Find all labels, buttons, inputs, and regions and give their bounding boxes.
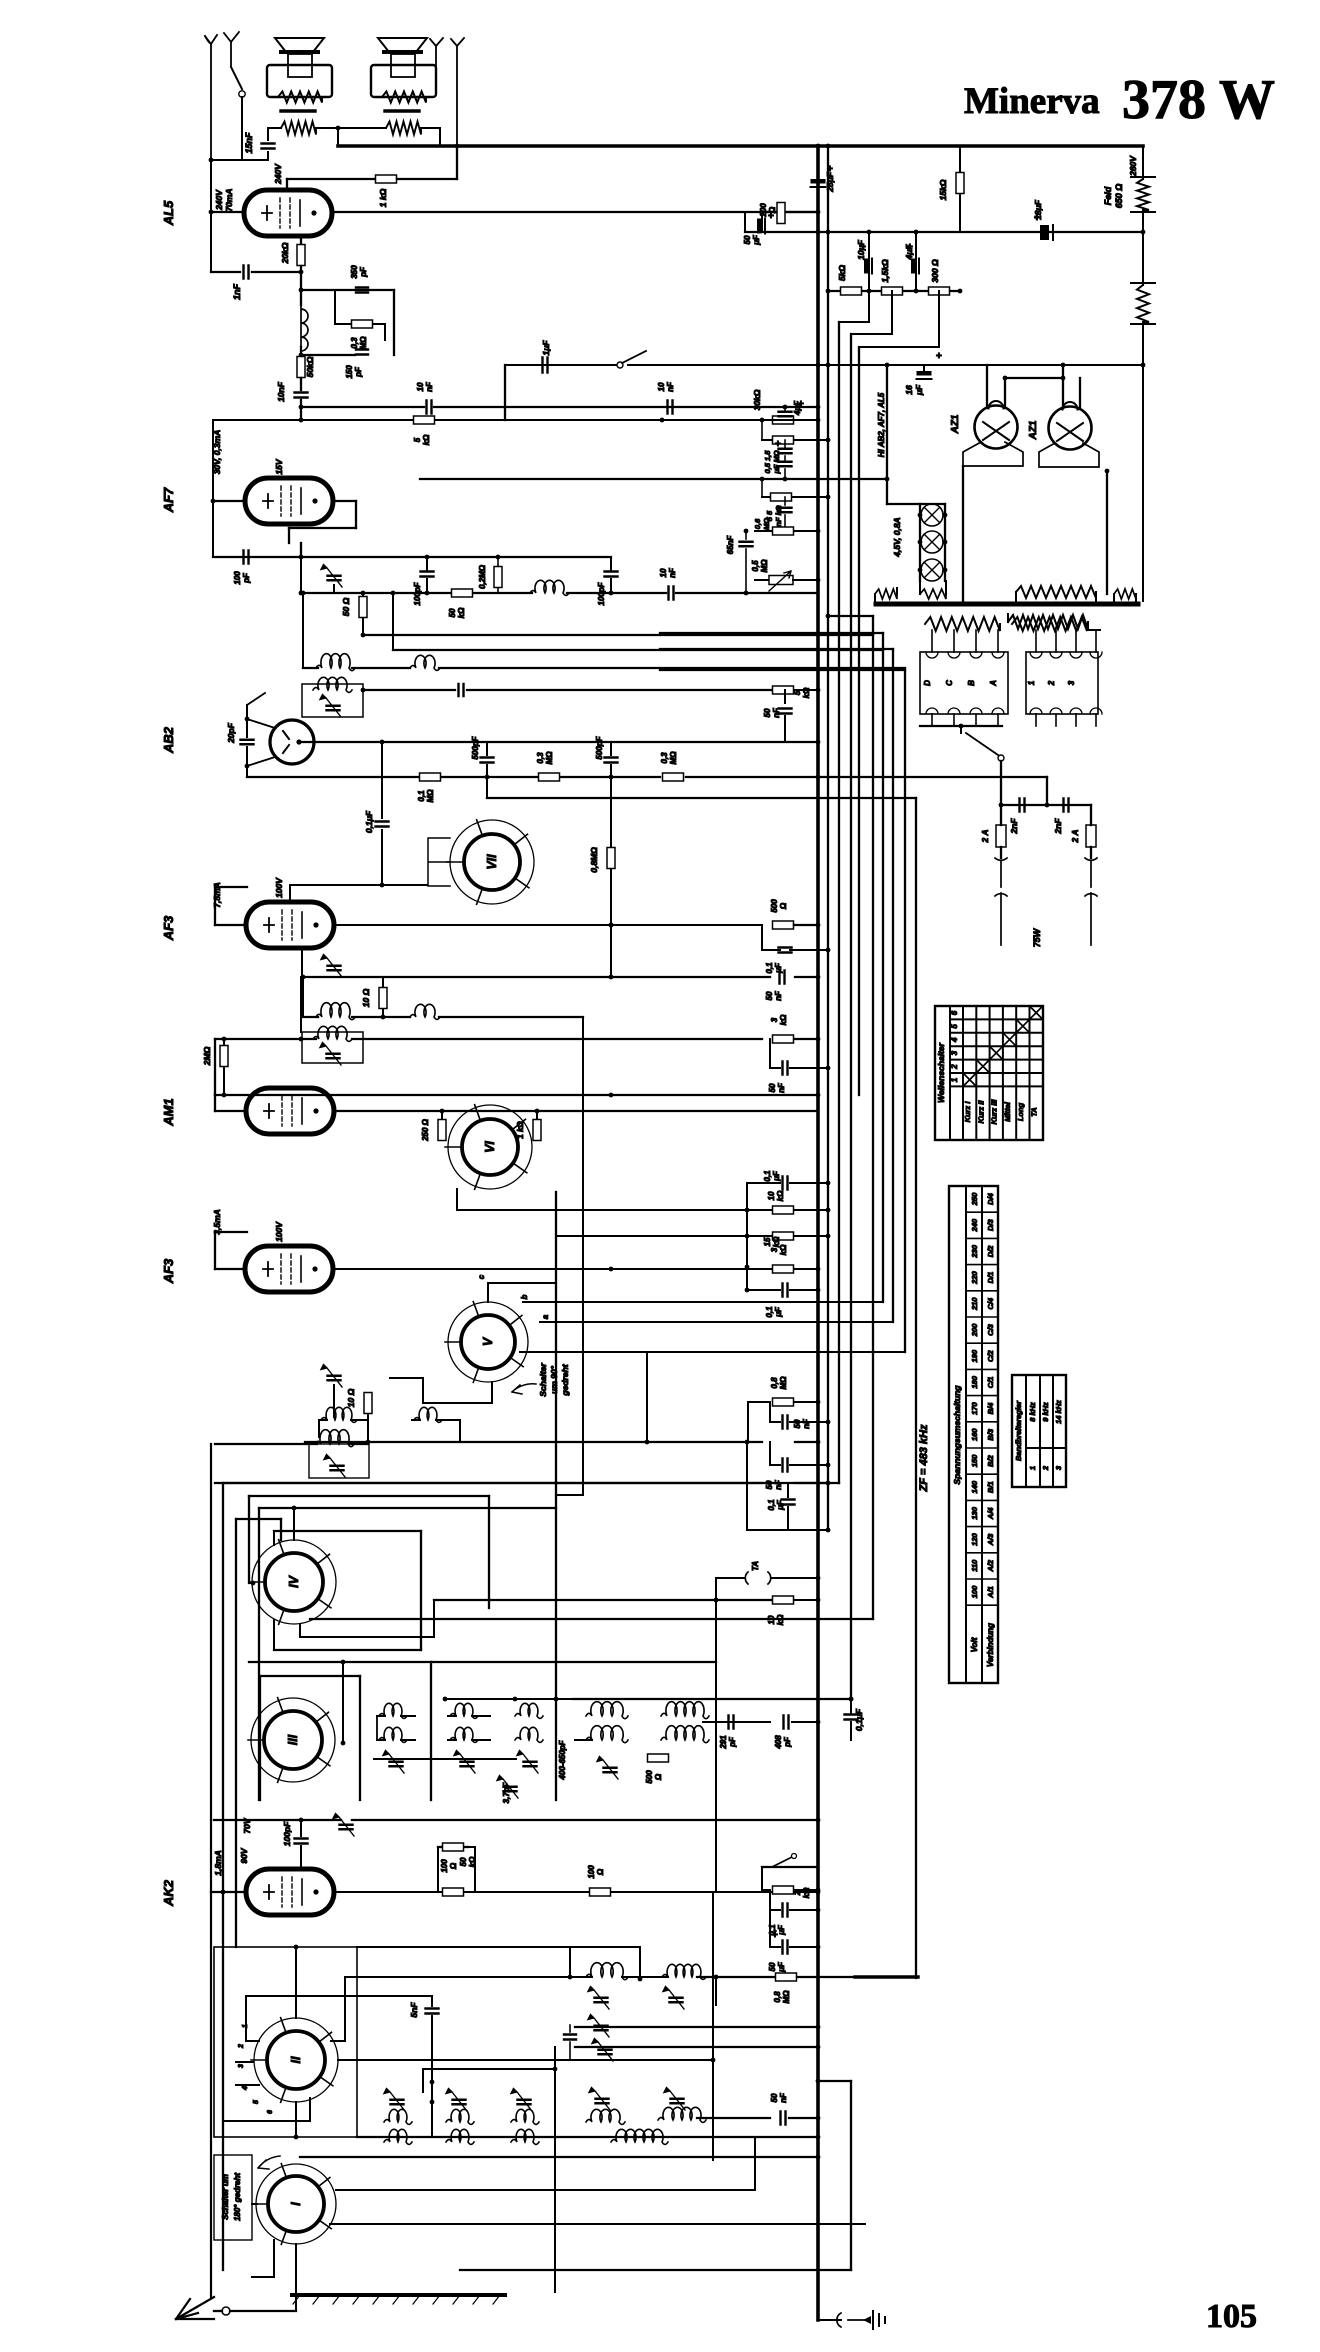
- svg-text:2: 2: [1041, 1465, 1050, 1471]
- svg-text:75W: 75W: [1032, 927, 1042, 947]
- tube VII left bracket: [428, 838, 450, 886]
- antenna fork right pair: [430, 38, 443, 86]
- mains plug a: [995, 858, 1007, 945]
- box III top: [249, 1661, 431, 1663]
- svg-text:15nF: 15nF: [244, 132, 254, 154]
- capacitor 0.1uF AK2: [769, 1890, 771, 1910]
- svg-text:Ω: Ω: [654, 1773, 663, 1781]
- svg-text:100: 100: [970, 1585, 979, 1598]
- svg-text:50: 50: [765, 1480, 774, 1489]
- wire II pin1 to osc coils: [331, 2040, 345, 2042]
- resistor 0.2 Mohm vertical: [497, 557, 499, 566]
- coil IF1 primary: [316, 654, 355, 671]
- svg-text:B/3: B/3: [986, 1428, 995, 1441]
- svg-text:μF MΩ: μF MΩ: [772, 450, 781, 474]
- svg-text:260V: 260V: [1128, 155, 1138, 177]
- svg-text:VII: VII: [485, 854, 499, 870]
- svg-text:1: 1: [1027, 680, 1036, 685]
- svg-text:190: 190: [970, 1349, 979, 1362]
- capacitor 0.1uF AB2: [381, 742, 383, 818]
- svg-text:nF: nF: [774, 990, 783, 1001]
- tube III: [251, 1698, 335, 1782]
- speaker LS2 field box: [371, 65, 436, 97]
- svg-text:500pF: 500pF: [595, 735, 604, 759]
- capacitor 0.1uF y1290: [747, 1289, 780, 1291]
- nest connector y633: [660, 632, 883, 634]
- svg-text:A/3: A/3: [986, 1533, 995, 1547]
- mains plug b: [1085, 858, 1097, 945]
- wire osc interconnect y2069: [423, 2068, 555, 2070]
- resistor 50 kohm: [297, 357, 305, 378]
- svg-text:b: b: [520, 1294, 529, 1299]
- nest bottom y1662: [432, 1661, 716, 1663]
- svg-text:250 Ω: 250 Ω: [421, 1118, 430, 1142]
- wire x303 to IF2: [302, 977, 304, 1017]
- svg-text:5kΩ: 5kΩ: [837, 265, 847, 281]
- svg-text:50: 50: [743, 235, 752, 244]
- svg-text:1: 1: [950, 1077, 959, 1082]
- capacitor 0.1uF AF3a: [761, 925, 763, 944]
- wire IV anode lines: [300, 1636, 434, 1638]
- svg-text:AB2: AB2: [161, 726, 176, 754]
- nest bottom y1698: [573, 1698, 851, 1700]
- svg-text:0,5: 0,5: [751, 560, 760, 572]
- svg-text:4: 4: [950, 1037, 959, 1043]
- wire y635 line: [363, 634, 873, 636]
- svg-text:50: 50: [770, 2093, 779, 2102]
- svg-text:nF: nF: [779, 2092, 788, 2103]
- capacitor 10uF electrolytic: [868, 232, 870, 291]
- wire AZ1 anode feeds: [986, 365, 988, 407]
- wire AM1 frame: [214, 1039, 216, 1095]
- resistor 300 ohm: [929, 287, 950, 295]
- svg-text:a: a: [541, 1314, 550, 1319]
- potentiometer 0.5 Mohm: [755, 579, 769, 581]
- svg-text:VI: VI: [483, 1141, 497, 1153]
- svg-text:350: 350: [350, 265, 359, 279]
- speaker LS1 voice coil resistor: [278, 92, 322, 103]
- tube AZ1 a: [975, 406, 1018, 449]
- tube AF3 first: [246, 902, 334, 948]
- IF transformer below V: [215, 1443, 317, 1445]
- svg-text:nF: nF: [668, 567, 677, 578]
- svg-text:+: +: [768, 211, 774, 222]
- svg-text:MΩ: MΩ: [782, 1990, 791, 2004]
- wire AK2 top y1820: [214, 1819, 341, 1821]
- speaker LS2 core bar: [385, 109, 419, 112]
- svg-text:MΩ: MΩ: [359, 336, 368, 350]
- wire antenna1 bus: [211, 159, 268, 161]
- svg-text:5nF: 5nF: [409, 2002, 419, 2018]
- svg-text:C: C: [945, 680, 954, 686]
- trimmer on AVC line: [333, 585, 335, 593]
- resistor 500 ohm: [773, 921, 794, 929]
- wire II pin3 pin4 left: [236, 2061, 253, 2063]
- capacitor 25uF electrolytic: [811, 179, 826, 184]
- resistor 5 kohm: [841, 287, 862, 295]
- inner box III: [260, 1675, 360, 1677]
- wire left antenna vertical x211: [210, 160, 212, 272]
- tube V pin b wire: [523, 1301, 883, 1303]
- svg-text:230: 230: [970, 1244, 979, 1258]
- svg-text:Bandbreiteregler: Bandbreiteregler: [1014, 1400, 1023, 1461]
- svg-text:4,5V, 0,8A: 4,5V, 0,8A: [892, 517, 902, 557]
- svg-text:16: 16: [904, 385, 914, 395]
- svg-text:50kΩ: 50kΩ: [305, 356, 315, 377]
- capacitor 10nF series: [295, 393, 308, 398]
- capacitor 500pF b: [610, 742, 612, 755]
- capacitor 0.1uF x851: [850, 1699, 852, 1713]
- svg-text:150: 150: [345, 365, 354, 379]
- resistor 0.8 Mohm ladder: [748, 1401, 770, 1403]
- svg-text:μF: μF: [776, 1499, 785, 1511]
- tube AL5: [244, 190, 332, 236]
- wire x303 from AVC line: [302, 593, 304, 667]
- tube AK2: [246, 1869, 334, 1915]
- svg-text:2 A: 2 A: [1070, 830, 1080, 844]
- wire AZ1 cathode brackets: [963, 442, 1023, 466]
- svg-text:A: A: [989, 680, 998, 687]
- capacitor 4uF AF7 screen: [784, 407, 786, 410]
- svg-text:0,8: 0,8: [770, 1377, 779, 1389]
- tube II: [254, 2018, 338, 2102]
- svg-text:II: II: [289, 2056, 303, 2063]
- svg-text:2nF: 2nF: [1053, 818, 1063, 835]
- resistor 1.5 kohm: [882, 287, 903, 295]
- speaker LS1 field box: [267, 65, 332, 97]
- svg-text:0,2MΩ: 0,2MΩ: [478, 564, 487, 589]
- capacitor 1nF: [211, 271, 240, 273]
- svg-text:A/1: A/1: [986, 1586, 995, 1599]
- svg-text:4: 4: [242, 2086, 249, 2091]
- svg-text:B: B: [967, 680, 976, 686]
- svg-text:8 kHz: 8 kHz: [1028, 1402, 1037, 1422]
- capacitor 50nF y1465: [769, 1442, 771, 1465]
- svg-text:um 90°: um 90°: [549, 1365, 559, 1394]
- wire x393 from AVC line: [392, 593, 394, 650]
- svg-text:nF: nF: [772, 707, 781, 718]
- svg-text:pF: pF: [783, 1736, 792, 1748]
- svg-text:10: 10: [767, 1191, 776, 1200]
- svg-text:AK2: AK2: [161, 1879, 176, 1907]
- tube VII magic eye: [450, 820, 534, 904]
- wire lower speaker return: [337, 128, 339, 146]
- wire box frame x223: [222, 1483, 224, 2270]
- table Bandbreiteregler: [1012, 1375, 1066, 1487]
- svg-text:5: 5: [413, 437, 422, 442]
- svg-text:50: 50: [459, 1857, 468, 1866]
- resistor row y497: [761, 479, 763, 497]
- wire II bottom y2121: [309, 2098, 311, 2121]
- capacitor 0.5uF 1.5Mohm pair: [784, 440, 786, 447]
- svg-text:100V: 100V: [274, 1221, 284, 1242]
- svg-text:kΩ: kΩ: [779, 1014, 788, 1025]
- tube AZ1 b: [1049, 407, 1092, 450]
- wire y1847 line: [438, 1846, 443, 1848]
- trimmer osc AK2: [670, 1998, 683, 2003]
- capacitor 0.1uF ladder top y1183: [783, 1177, 788, 1190]
- resistor 0.3 Mohm a: [539, 773, 560, 781]
- svg-text:+: +: [798, 399, 804, 410]
- wire speaker secondary links: [268, 127, 281, 129]
- wire AL5 grid line y212: [211, 211, 244, 213]
- wire outer box left x211: [210, 1444, 212, 2297]
- svg-text:6: 6: [950, 1010, 959, 1015]
- svg-text:Long: Long: [1016, 1102, 1025, 1121]
- wire y1977 osc feed: [697, 1976, 775, 1978]
- svg-text:10 Ω: 10 Ω: [361, 988, 371, 1007]
- tube AF7: [245, 478, 333, 524]
- svg-text:20kΩ: 20kΩ: [280, 242, 290, 264]
- nest line x873: [872, 616, 874, 1619]
- wire AF7 box top y420: [213, 419, 414, 421]
- heater winding resistors row: [875, 589, 897, 599]
- svg-text:105: 105: [1206, 2298, 1257, 2335]
- svg-text:15: 15: [763, 1237, 772, 1246]
- svg-text:110: 110: [970, 1559, 979, 1572]
- antenna switch lever: [231, 67, 242, 89]
- wire AK2 anode y1892: [334, 1891, 443, 1893]
- capacitor 50nF y1422: [770, 1421, 780, 1423]
- svg-text:3: 3: [770, 1247, 779, 1252]
- svg-text:1nF: 1nF: [232, 284, 242, 301]
- wire y2157: [300, 2156, 713, 2158]
- svg-text:0,8: 0,8: [773, 1991, 782, 2003]
- svg-text:150: 150: [970, 1454, 979, 1467]
- wire nest step from 300ohm: [938, 291, 940, 347]
- svg-text:AZ1: AZ1: [950, 414, 961, 434]
- svg-text:200: 200: [970, 1323, 979, 1337]
- svg-text:μF: μF: [777, 1924, 786, 1936]
- svg-text:180: 180: [970, 1375, 979, 1388]
- speaker LS1 secondary winding resistor: [281, 122, 316, 135]
- resistor 1 kohm: [376, 175, 397, 183]
- svg-text:240V: 240V: [214, 189, 224, 211]
- tube V pin a wire: [540, 1321, 893, 1323]
- wire frame x489 down: [488, 1496, 490, 1608]
- svg-text:pF: pF: [359, 266, 368, 278]
- resistor AF7 row y440: [761, 420, 763, 440]
- wire V cathode network: [491, 1382, 493, 1403]
- IF2 box with secondary and trimmer: [302, 1032, 363, 1063]
- capacitor 5nF: [431, 1996, 433, 2006]
- svg-text:+: +: [1034, 213, 1040, 224]
- svg-text:Feld: Feld: [1103, 186, 1113, 205]
- wire AL5 plate to rail: [286, 179, 288, 190]
- svg-text:408: 408: [774, 1735, 783, 1750]
- wire I cathode right: [330, 2223, 865, 2225]
- resistor 30 kohm on y420: [773, 416, 794, 424]
- capacitor 2nF a: [1020, 799, 1025, 812]
- resistor 10 kohm ladder: [747, 1209, 772, 1211]
- wire inner box y1996: [246, 1995, 432, 1997]
- resistor 2 Mohm: [223, 1039, 225, 1046]
- tube V pin c wire: [487, 1283, 489, 1302]
- svg-text:D/2: D/2: [986, 1245, 995, 1258]
- svg-text:Schalter um: Schalter um: [221, 2174, 230, 2220]
- wire main HT rail y146: [338, 144, 1143, 148]
- svg-text:0,1μF: 0,1μF: [854, 1708, 864, 1731]
- svg-text:kΩ: kΩ: [776, 1190, 785, 1201]
- svg-text:50: 50: [448, 608, 457, 617]
- svg-text:100V: 100V: [274, 877, 284, 898]
- wire y2027: [575, 2026, 818, 2028]
- wire AB2 diode leads: [247, 719, 275, 766]
- svg-text:200: 200: [759, 203, 768, 218]
- ground hatch bar: [292, 2293, 505, 2297]
- wire HT y232: [745, 231, 1143, 233]
- wire I grid right: [336, 2189, 755, 2191]
- wire y2137: [357, 2136, 818, 2138]
- wire x583 vertical lower: [582, 1100, 584, 1495]
- svg-text:0,3: 0,3: [536, 752, 545, 764]
- capacitor 20pF: [246, 705, 248, 737]
- resistor 100 ohm AK2: [443, 1888, 464, 1896]
- wire II pin wires top: [295, 1947, 297, 2018]
- capacitor 100pF at x611: [610, 557, 612, 570]
- nest line x851: [850, 334, 852, 1699]
- svg-text:A/2: A/2: [986, 1559, 995, 1573]
- resistor 10 kohm TA: [434, 1599, 772, 1601]
- svg-text:AM1: AM1: [161, 1098, 176, 1126]
- svg-text:+: +: [775, 439, 781, 450]
- wire box frame x249: [248, 1496, 250, 1583]
- resistor 10 ohm: [382, 977, 384, 988]
- svg-text:15V: 15V: [274, 458, 284, 474]
- svg-text:130: 130: [970, 1506, 979, 1519]
- svg-text:5: 5: [253, 2100, 260, 2104]
- svg-text:70mA: 70mA: [224, 188, 234, 211]
- capacitor 50nF AB2 screen: [784, 690, 786, 703]
- wave switch resistor bank A: [925, 617, 1000, 631]
- nest line x893: [892, 649, 894, 1322]
- coils top right of II: [586, 1963, 628, 1980]
- dial lamps 4.5V 0.8A: [887, 503, 920, 505]
- tube AM1: [246, 1088, 334, 1134]
- svg-text:Kurz I: Kurz I: [963, 1101, 972, 1123]
- box tube I: [214, 2155, 252, 2240]
- svg-text:MΩ: MΩ: [762, 518, 771, 530]
- svg-text:D/3: D/3: [986, 1219, 995, 1232]
- svg-text:MΩ: MΩ: [779, 1376, 788, 1390]
- tube V mixer-oscillator: [448, 1302, 528, 1382]
- svg-text:1 kΩ: 1 kΩ: [378, 188, 388, 207]
- switch on B+ line: [617, 362, 623, 368]
- field coil Feld 650 ohm: [1137, 179, 1149, 210]
- svg-text:Ω: Ω: [449, 1862, 458, 1870]
- svg-text:Verbindung: Verbindung: [986, 1623, 995, 1667]
- svg-text:kΩ: kΩ: [779, 1244, 788, 1255]
- resistor 3 kohm y1039: [773, 1035, 794, 1043]
- svg-text:kΩ: kΩ: [802, 1887, 811, 1898]
- nest connector y616: [828, 615, 873, 617]
- resistor 1 kohm AM1: [536, 1111, 538, 1120]
- capacitor 65nF: [745, 531, 747, 539]
- wire AF3b anode y1269: [333, 1268, 818, 1270]
- svg-text:MΩ: MΩ: [545, 751, 554, 765]
- svg-text:0,1μF: 0,1μF: [364, 810, 374, 833]
- svg-text:50: 50: [768, 1962, 777, 1971]
- fuse 2A b: [1090, 805, 1092, 825]
- svg-text:300 Ω: 300 Ω: [930, 259, 940, 283]
- svg-text:3: 3: [770, 1017, 779, 1022]
- wire B+ line y365: [505, 364, 616, 366]
- svg-text:100: 100: [233, 571, 242, 585]
- mains switch: [966, 733, 998, 755]
- wire y1483 line: [215, 1482, 762, 1484]
- resistor 250 ohm: [441, 1111, 443, 1120]
- svg-text:30kΩ: 30kΩ: [752, 389, 762, 410]
- svg-text:0,1: 0,1: [765, 1306, 774, 1318]
- nest connector y670: [660, 669, 905, 671]
- wire AB2 anode y742: [299, 741, 818, 743]
- capacitor 10nF AVC: [669, 587, 674, 600]
- svg-text:kΩ: kΩ: [468, 1856, 477, 1867]
- capacitor 0.1uF y1505: [787, 1483, 789, 1497]
- svg-text:3,7nF: 3,7nF: [502, 1781, 511, 1803]
- svg-text:+: +: [936, 351, 942, 362]
- capacitor 16uF electrolytic: [923, 365, 925, 370]
- svg-text:B/1: B/1: [986, 1481, 995, 1493]
- resistor 100 ohm 50 kohm pair: [443, 1843, 464, 1851]
- svg-text:c: c: [477, 1274, 486, 1279]
- svg-text:kΩ: kΩ: [457, 607, 466, 618]
- svg-text:0,1: 0,1: [765, 962, 774, 974]
- nest bottom y1619: [310, 1618, 873, 1620]
- bottom coil bank row1: [384, 2109, 412, 2124]
- svg-text:5: 5: [950, 1024, 959, 1029]
- svg-text:3: 3: [238, 2064, 245, 2068]
- wire y1039 line: [215, 1038, 316, 1040]
- nest line x839: [838, 322, 840, 1483]
- svg-text:2: 2: [793, 1890, 802, 1896]
- wire right frame vertical x1143: [1142, 146, 1144, 179]
- svg-text:0,8MΩ: 0,8MΩ: [589, 847, 599, 873]
- svg-text:C/2: C/2: [986, 1350, 995, 1363]
- svg-text:C/1: C/1: [986, 1377, 995, 1389]
- capacitor 10nF second on y407: [668, 401, 673, 414]
- coil IF2 coupling: [410, 1004, 440, 1019]
- wire II bottom pin: [295, 2102, 297, 2137]
- svg-text:Kurz II: Kurz II: [976, 1100, 985, 1124]
- resistor 50 ohm: [362, 593, 364, 596]
- wire heater feed Hi AB2 AF7 AL5: [886, 365, 888, 504]
- wire AF7 cathode left: [213, 500, 245, 502]
- wire box frame x259: [258, 1508, 260, 1800]
- svg-text:Kurz III: Kurz III: [990, 1099, 999, 1125]
- speaker LS2 voice coil resistor: [382, 92, 426, 103]
- svg-text:nF kΩ: nF kΩ: [774, 505, 783, 526]
- trimmer pair x600: [595, 2026, 608, 2031]
- resistor 0.8 Mohm AK2: [776, 1973, 797, 1981]
- capacitor 50nF on y977: [780, 971, 785, 984]
- svg-text:0,1: 0,1: [767, 1499, 776, 1511]
- svg-text:9 kHz: 9 kHz: [1041, 1402, 1050, 1422]
- wire y798 line: [486, 777, 488, 798]
- resistor 5 kohm AF7: [414, 416, 435, 424]
- coil IF1 coupling: [410, 655, 440, 670]
- svg-text:pF: pF: [242, 572, 251, 584]
- resistor 200 ohm: [762, 211, 818, 213]
- svg-text:0,1: 0,1: [417, 790, 426, 802]
- svg-text:6: 6: [267, 2110, 274, 2114]
- tube I: [256, 2164, 336, 2244]
- svg-text:+: +: [860, 242, 866, 253]
- wire bank outputs: [920, 725, 1002, 727]
- svg-text:1,8mA: 1,8mA: [213, 1850, 223, 1876]
- svg-text:65nF: 65nF: [726, 535, 735, 555]
- svg-text:kΩ: kΩ: [422, 434, 431, 445]
